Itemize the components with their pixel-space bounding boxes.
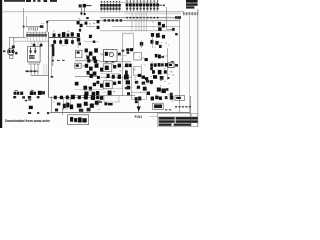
wire rectifier drop 3 bbox=[66, 38, 68, 45]
diode D11 bbox=[53, 33, 56, 37]
wire heater drop 3 bbox=[37, 64, 39, 71]
emitter resistor R12 bbox=[97, 76, 100, 79]
wire secondary top bus bbox=[124, 13, 181, 15]
transistor Q20 bbox=[125, 64, 128, 68]
diode D14 bbox=[53, 40, 56, 44]
note box 5.2 ohm bbox=[68, 115, 89, 125]
wire feedback vertical bbox=[138, 96, 140, 112]
wire right rail B bbox=[189, 16, 191, 113]
diode D19 bbox=[140, 42, 143, 46]
phono stage cluster bottom bbox=[153, 75, 169, 80]
bias network cluster bbox=[155, 54, 164, 59]
wire relay feed bbox=[100, 53, 104, 55]
terminal e bbox=[79, 109, 84, 112]
AC plug P1 bbox=[7, 48, 14, 58]
transistor Q1 bbox=[77, 21, 80, 24]
junction bottom a bbox=[99, 101, 102, 103]
wire protect link bbox=[117, 55, 127, 57]
output terminal cluster bbox=[151, 96, 174, 101]
scan edge bar left bbox=[0, 0, 2, 128]
inner rail tick bbox=[51, 76, 54, 78]
emitter resistor R23 bbox=[87, 59, 90, 62]
resistor R8 bbox=[79, 29, 81, 32]
wire fuse lead left bbox=[81, 8, 83, 16]
wire corner top bbox=[123, 32, 134, 34]
transistor Q14 bbox=[87, 71, 90, 75]
output jack box bbox=[104, 95, 119, 102]
input selector cluster bbox=[158, 7, 175, 31]
transistor Q44 bbox=[85, 49, 88, 53]
wire preamp drop 3 bbox=[69, 98, 71, 110]
capacitor C14 bbox=[118, 53, 121, 56]
wire rectifier drop 1 bbox=[54, 38, 56, 45]
switch S3 bbox=[29, 106, 33, 109]
footer mark a bbox=[28, 112, 31, 114]
input jack J1 bbox=[75, 82, 79, 86]
resistor R14 bbox=[112, 75, 115, 79]
transistor Q11 bbox=[85, 64, 88, 68]
wire ch3 top bus bbox=[49, 97, 100, 99]
footer mark b bbox=[37, 112, 39, 114]
wire ch2 link bbox=[112, 88, 123, 90]
diode D2 bbox=[129, 0, 132, 12]
title block row 1 bbox=[159, 117, 198, 120]
diode D17 bbox=[85, 22, 88, 25]
transistor Q7 cluster bbox=[126, 48, 133, 54]
diode D20 bbox=[108, 91, 112, 96]
wire preamp drop 1 bbox=[63, 98, 65, 110]
input stage Q9 Q10 bbox=[150, 33, 165, 48]
capacitor C2 bbox=[103, 1, 106, 12]
wire top horizontal bus bbox=[3, 11, 184, 13]
terminal f bbox=[87, 108, 91, 112]
terminal right mid bbox=[175, 64, 178, 67]
transistor Q27 bbox=[93, 83, 96, 87]
title text block top right bbox=[186, 0, 198, 9]
pilot lamp arrow bbox=[46, 21, 49, 24]
resistor R3 bbox=[32, 31, 34, 41]
title block top rule bbox=[150, 115, 198, 117]
resistor R4 bbox=[35, 31, 37, 41]
emitter resistor R24 bbox=[94, 59, 98, 63]
transistor Q36 bbox=[60, 96, 63, 100]
driver block U5 bbox=[75, 50, 82, 58]
resistor R7 bbox=[44, 31, 46, 41]
transistor Q33 bbox=[118, 81, 121, 84]
capacitor C16 bbox=[113, 82, 116, 85]
junction dots diode bus bbox=[126, 17, 158, 19]
speaker terminal box bbox=[132, 92, 147, 99]
capacitor C10 bbox=[40, 44, 43, 47]
transistor Q12 bbox=[89, 67, 93, 71]
wire right dash bbox=[171, 61, 174, 63]
capacitor C13 bbox=[65, 39, 69, 44]
meter box M1 bbox=[168, 63, 174, 68]
title block divider bbox=[190, 113, 192, 126]
diode D15 bbox=[59, 40, 62, 44]
capacitor C19 bbox=[125, 71, 128, 75]
capacitor C7 bbox=[118, 1, 121, 12]
wire ch1 bottom bus bbox=[75, 76, 100, 78]
transistor Q18 bbox=[118, 75, 121, 79]
fuse box label bbox=[175, 96, 185, 101]
junction relay a bbox=[106, 61, 108, 63]
wire diode row stub bbox=[158, 4, 163, 6]
wire left vertical feed bbox=[23, 8, 25, 37]
transistor Q17 bbox=[118, 64, 121, 68]
wire vertical center bus bbox=[122, 33, 124, 62]
protection box U1 bbox=[134, 53, 142, 60]
junction relay b bbox=[112, 61, 114, 63]
wire heater return bbox=[25, 70, 39, 72]
resistor R15 bbox=[170, 93, 173, 96]
transistor Q40 bbox=[84, 95, 88, 100]
transistor Q38 bbox=[71, 95, 75, 100]
wire dash out b bbox=[169, 109, 171, 111]
resistor R9 bbox=[78, 42, 81, 45]
wire inner vertical feed bbox=[25, 16, 27, 27]
wire ch2 bottom bus bbox=[75, 94, 135, 96]
wire mains drop right bbox=[13, 37, 15, 45]
right border line bbox=[197, 9, 199, 127]
capacitor C4 bbox=[109, 1, 112, 12]
revision tick row top right bbox=[183, 12, 198, 15]
headphone jack cluster bbox=[157, 88, 169, 94]
wire diode drop 3 bbox=[138, 12, 140, 31]
diode D8 bbox=[149, 0, 152, 12]
wire resistor drop 2 bbox=[34, 41, 36, 45]
wire rectifier bus bbox=[49, 37, 77, 39]
wire diode drop 5 bbox=[143, 12, 145, 31]
label dw bbox=[104, 102, 112, 105]
wire relay bottom bus bbox=[100, 61, 131, 63]
U3 core bbox=[105, 66, 109, 70]
resistor R19 bbox=[77, 104, 82, 108]
wire output bus bottom bbox=[50, 111, 190, 113]
diode D10 bbox=[156, 0, 159, 12]
potentiometer VR2 bbox=[20, 92, 23, 95]
resistor R1 bbox=[26, 31, 28, 41]
wire rectifier return a bbox=[49, 45, 54, 47]
terminal lug rectifier bbox=[52, 44, 55, 47]
solder joint fuse right bbox=[84, 13, 86, 15]
transistor Q2 bbox=[80, 24, 83, 27]
transformer T1 bbox=[28, 47, 41, 62]
diode D1 bbox=[126, 0, 129, 12]
driver block U2 bbox=[75, 63, 81, 68]
wire bottom left rail bbox=[51, 96, 53, 112]
wire vertical center low bbox=[122, 62, 124, 96]
resistor R22 bbox=[95, 101, 99, 105]
transistor Q47 bbox=[86, 56, 89, 60]
wire ch1 out bus bbox=[100, 76, 131, 78]
transformer T1 pin comb bbox=[29, 62, 40, 65]
jack terminal b bbox=[22, 96, 25, 98]
junction node reg bbox=[93, 41, 96, 44]
junction node left feed bbox=[23, 26, 25, 28]
wire ch2 mid bus bbox=[75, 89, 104, 91]
diode D13 bbox=[67, 34, 70, 37]
terminal lug mains bbox=[12, 45, 15, 48]
transistor Q6 bbox=[77, 38, 80, 42]
title block row 3 bbox=[159, 124, 191, 126]
wire heater up a bbox=[43, 64, 45, 75]
dashed ground wire bbox=[175, 106, 191, 107]
wire note drop bbox=[62, 108, 64, 115]
wire strip A bottom bus bbox=[75, 60, 100, 62]
capacitor C5 bbox=[112, 1, 115, 12]
wire right bus upper bbox=[100, 17, 180, 19]
output device box bbox=[133, 67, 141, 76]
wire switch row link bbox=[26, 26, 40, 28]
wire u2 out bbox=[81, 65, 85, 67]
wire secondary dash a bbox=[57, 59, 60, 61]
junction node secondary bbox=[52, 60, 54, 62]
svg-text:PJ41: PJ41 bbox=[135, 115, 143, 119]
wire diode drop 6 bbox=[146, 12, 148, 31]
wire heater drop d3 bbox=[37, 71, 39, 75]
diode D4 bbox=[136, 0, 139, 12]
meter fill bbox=[169, 64, 172, 66]
svg-text:Downloaded from www-sche: Downloaded from www-sche bbox=[5, 119, 50, 123]
capacitor C3 bbox=[106, 1, 109, 12]
diode D18 bbox=[89, 35, 92, 38]
junction heater c bbox=[34, 70, 36, 72]
wire regulator link bbox=[86, 26, 95, 28]
wire resistor drop 4 bbox=[40, 41, 42, 45]
wire lower top bus bbox=[100, 30, 175, 32]
tone network cluster bbox=[125, 80, 150, 95]
transistor Q5 bbox=[77, 33, 80, 37]
transistor Q4 bbox=[97, 26, 100, 29]
wire heater up b bbox=[46, 64, 48, 75]
transistor Q15 bbox=[93, 72, 97, 76]
junction heater a bbox=[26, 70, 28, 72]
wire preamp drop 2 bbox=[66, 98, 68, 110]
wire vertical right low bbox=[131, 64, 133, 99]
emitter resistor R11 bbox=[90, 74, 93, 78]
wire heater drop 2 bbox=[34, 64, 36, 71]
potentiometer VR4 bbox=[38, 91, 45, 95]
transistor Q21 bbox=[129, 64, 132, 67]
resistor R13 bbox=[107, 74, 110, 78]
transistor Q30 bbox=[92, 92, 96, 96]
terminal right top bbox=[175, 33, 178, 35]
wire dash out a bbox=[165, 109, 168, 111]
ground arrow mains bbox=[3, 50, 6, 52]
wire q6 drop bbox=[77, 42, 79, 48]
fuse label text bbox=[176, 97, 181, 99]
diode D7 bbox=[146, 0, 149, 12]
junction heater b bbox=[30, 70, 32, 72]
transistor Q35 bbox=[54, 96, 57, 100]
capacitor C17 bbox=[127, 92, 130, 95]
resistor R20 bbox=[84, 102, 88, 106]
transistor Q45 bbox=[89, 52, 93, 56]
transistor Q26 bbox=[89, 87, 92, 91]
resistor R17 bbox=[66, 103, 69, 108]
transistor Q48 bbox=[92, 56, 96, 60]
transistor Q42 bbox=[96, 96, 99, 100]
wire corner drop bbox=[133, 33, 135, 50]
transistor Q34 bbox=[150, 80, 153, 84]
capacitor C8 line filter bbox=[40, 25, 44, 28]
relay RY1 bbox=[104, 49, 117, 61]
relay contact circle bbox=[109, 52, 113, 56]
diode D12 bbox=[58, 34, 61, 37]
wire ch1 mid bus bbox=[100, 73, 120, 75]
fuse F1 bbox=[79, 4, 92, 8]
resistor R5 bbox=[38, 31, 40, 41]
wire resistor drop 1 bbox=[30, 41, 32, 45]
output transistor Q24 bbox=[145, 77, 148, 80]
wire rectifier drop 4 bbox=[72, 38, 74, 45]
potentiometer VR3 bbox=[30, 90, 36, 95]
potentiometer VR1 bbox=[14, 90, 20, 95]
wire resistor drop 3 bbox=[37, 41, 39, 45]
wire mains horizontal bbox=[9, 36, 26, 38]
bias block U3 bbox=[103, 64, 112, 72]
transistor Q25 bbox=[83, 86, 87, 91]
jack terminal c bbox=[37, 96, 40, 98]
wire heater bottom bbox=[31, 74, 49, 76]
transistor Q31 bbox=[96, 91, 100, 95]
capacitor C15 bbox=[113, 65, 116, 69]
wire diode drop 4 bbox=[141, 12, 143, 31]
scan header text strip bbox=[4, 0, 57, 2]
arrow PJ41 bbox=[137, 106, 141, 111]
wire right vertical v1 bbox=[167, 48, 169, 80]
wire pilot lamp drop bbox=[46, 21, 48, 32]
transistor Q39 bbox=[78, 96, 81, 100]
fuse F2 mains bbox=[15, 52, 17, 55]
wire bias link bbox=[163, 55, 168, 57]
output transistor Q23 bbox=[142, 76, 146, 79]
thermal switch TH1 bbox=[86, 17, 89, 19]
resistor R10 bbox=[122, 50, 125, 52]
resistor R21 bbox=[90, 104, 94, 108]
U5 label mark bbox=[77, 51, 80, 53]
wire fuse lead right bbox=[84, 8, 86, 16]
transistor Q37 bbox=[66, 96, 69, 100]
wire diode drop 1 bbox=[131, 12, 133, 31]
wire reg out bbox=[84, 41, 99, 43]
transistor Q32 bbox=[100, 84, 103, 88]
wire heater drop d2 bbox=[34, 71, 36, 75]
wire heater bus bbox=[14, 40, 49, 42]
capacitor C9 bbox=[33, 44, 36, 47]
wire rectifier drop 2 bbox=[60, 38, 62, 45]
switch S1 contacts bbox=[29, 27, 38, 30]
transistor Q13 bbox=[95, 63, 99, 68]
transistor Q16 bbox=[100, 68, 103, 72]
transistor Q41 bbox=[91, 95, 95, 100]
footer mark c bbox=[47, 112, 49, 114]
wire right rail A bbox=[179, 16, 181, 113]
transistor Q3 bbox=[97, 20, 100, 23]
transistor Q29 bbox=[84, 92, 88, 96]
transistor Q46 bbox=[94, 48, 98, 52]
feedback node cluster bbox=[135, 97, 142, 104]
wire regulator drop bbox=[79, 27, 81, 31]
wire heater drop 1 bbox=[30, 64, 32, 71]
wire mains drop left bbox=[8, 37, 10, 50]
wire heater drop d1 bbox=[30, 71, 32, 75]
bias block U4 bbox=[103, 81, 112, 89]
note marks above box bbox=[55, 109, 58, 112]
terminal blobs capacitor bus bbox=[104, 19, 123, 22]
relay coil core bbox=[105, 52, 108, 56]
wire capacitor row top link bbox=[100, 1, 158, 3]
phono stage cluster top bbox=[150, 63, 168, 67]
title block row 2 bbox=[159, 120, 198, 123]
selector switch S2 bbox=[28, 96, 31, 101]
diode D6 bbox=[143, 0, 146, 12]
wire diode drop 2 bbox=[135, 12, 137, 31]
wire left rail bbox=[48, 32, 50, 98]
transistor Q28 bbox=[96, 81, 99, 84]
diode D5 bbox=[139, 0, 142, 12]
capacitor C18 bbox=[57, 103, 61, 106]
solder joint fuse left bbox=[80, 12, 82, 14]
wire d19 drop bbox=[141, 40, 143, 48]
wire right bus lower bbox=[47, 19, 180, 21]
rail A top joint bbox=[175, 16, 181, 19]
transformer T1 secondary winding bbox=[52, 47, 55, 66]
phono stage cluster mid bbox=[150, 67, 167, 74]
resistor R2 bbox=[29, 31, 31, 41]
resistor R18 bbox=[70, 105, 73, 110]
U2 label bbox=[76, 64, 79, 66]
wire secondary dash b bbox=[62, 59, 65, 61]
transistor Q8 bbox=[145, 58, 148, 61]
U4 core bbox=[105, 83, 109, 87]
speaker SP1 bbox=[153, 103, 164, 109]
diode D16 bbox=[71, 40, 74, 44]
capacitor C1 bbox=[100, 1, 103, 12]
wire mid bus bbox=[112, 26, 180, 28]
jack terminal d bbox=[25, 100, 27, 102]
capacitor C12 bbox=[71, 32, 74, 36]
resistor R16 bbox=[63, 104, 66, 109]
diode D9 bbox=[153, 0, 156, 12]
capacitor C11 bbox=[62, 32, 66, 37]
resistor R6 bbox=[41, 31, 43, 41]
title block frame bbox=[158, 113, 198, 126]
wire right exit vertical bbox=[190, 96, 192, 126]
wire inner left rail bbox=[51, 56, 53, 77]
output transistor Q22 bbox=[138, 74, 141, 77]
stub end dash bbox=[163, 5, 165, 6]
jack terminal a bbox=[13, 96, 16, 98]
diode D3 bbox=[132, 0, 135, 12]
capacitor C6 bbox=[115, 1, 118, 12]
transistor Q43 bbox=[100, 96, 104, 100]
wire rectifier return b bbox=[61, 45, 66, 47]
transistor Q19 bbox=[124, 75, 129, 80]
